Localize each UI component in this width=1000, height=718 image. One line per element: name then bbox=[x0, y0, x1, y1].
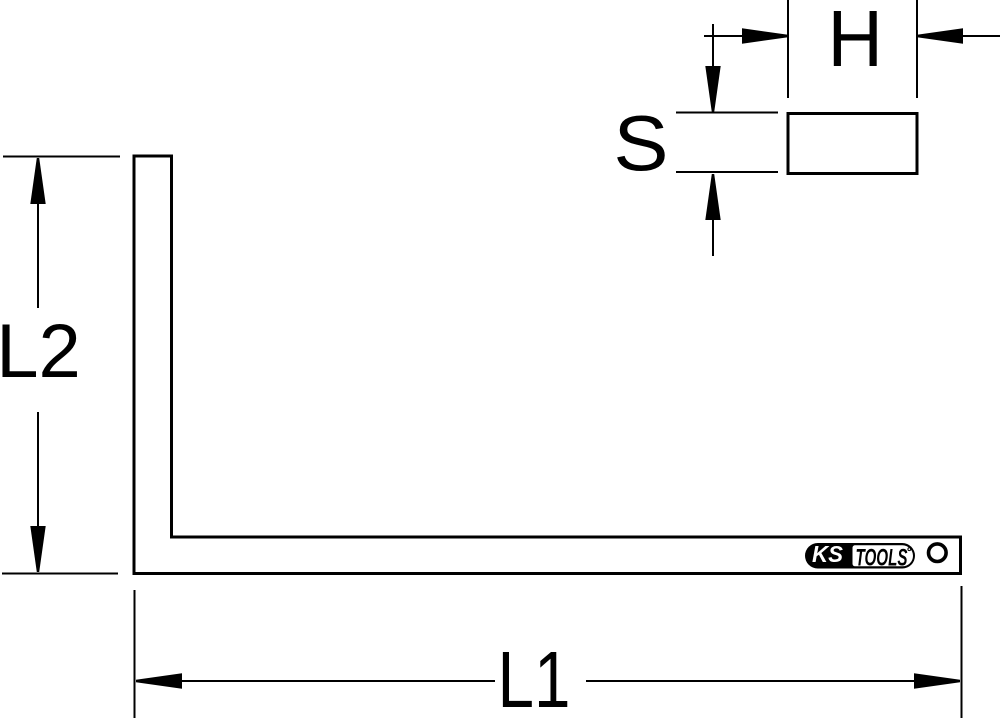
svg-text:TOOLS: TOOLS bbox=[856, 545, 908, 571]
logo circle bbox=[929, 544, 947, 562]
H extension line right bbox=[916, 0, 918, 98]
H extension line left bbox=[787, 0, 789, 98]
L1 dimension arrow right bbox=[586, 673, 960, 688]
L1 extension line right bbox=[961, 586, 963, 718]
L2 dimension arrow up bbox=[30, 158, 45, 308]
H dimension arrow right bbox=[917, 28, 1000, 43]
S extension line bottom bbox=[676, 171, 778, 173]
S extension line top bbox=[676, 112, 778, 114]
cross-section rectangle bbox=[788, 114, 917, 174]
S dimension up arrow bbox=[705, 174, 720, 256]
L2 extension line bottom bbox=[2, 573, 118, 575]
svg-text:H: H bbox=[828, 0, 883, 83]
S dimension down arrow bbox=[705, 24, 720, 112]
L1 extension line left bbox=[134, 590, 136, 718]
svg-text:KS: KS bbox=[812, 541, 843, 567]
svg-text:S: S bbox=[613, 100, 668, 187]
L1 dimension arrow left bbox=[136, 673, 495, 688]
svg-text:L1: L1 bbox=[498, 635, 571, 718]
KS TOOLS logo bbox=[805, 541, 915, 572]
H dimension arrow left bbox=[704, 28, 788, 43]
L2 dimension arrow down bbox=[30, 412, 45, 572]
L-shaped tool outline bbox=[134, 156, 961, 574]
svg-text:L2: L2 bbox=[0, 309, 81, 394]
L2 extension line top bbox=[3, 156, 120, 158]
